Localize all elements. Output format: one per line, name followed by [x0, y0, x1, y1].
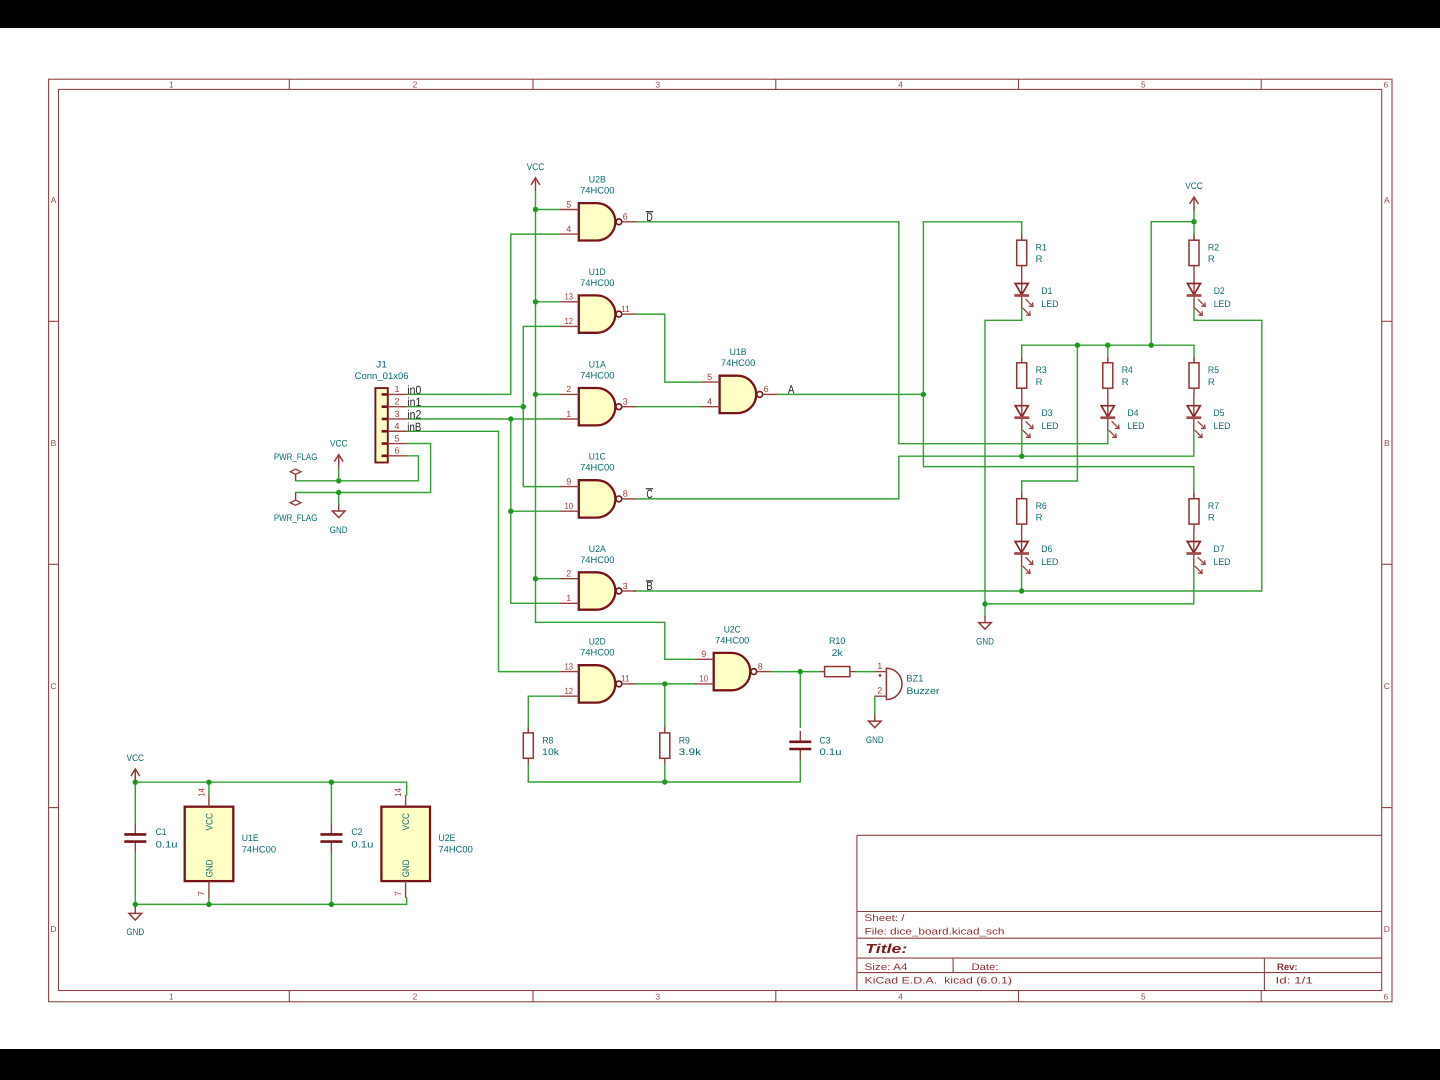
junction GND C2 [329, 902, 334, 907]
svg-text:PWR_FLAG: PWR_FLAG [274, 452, 318, 463]
svg-text:2: 2 [413, 79, 418, 89]
NAND gate U1C body [579, 480, 622, 517]
svg-text:4: 4 [898, 991, 903, 1001]
junction in2 top [508, 416, 513, 421]
svg-text:GND: GND [330, 525, 348, 536]
svg-text:6: 6 [1384, 991, 1389, 1001]
wire VCC rail decoupling [135, 770, 406, 795]
wire in2 branch to U1C pin10 [511, 510, 560, 512]
U2E pin 14 VCC [393, 788, 412, 830]
U2C pin 8 [757, 661, 771, 671]
svg-text:R: R [1036, 254, 1043, 265]
wire R4 stem [1107, 345, 1109, 363]
U1B pin 5 [701, 372, 720, 382]
LED D4 symbol [1100, 393, 1119, 437]
J1 pin 1 [382, 384, 407, 394]
U1C pin 8 [622, 489, 636, 499]
wire C1 bottom [134, 853, 136, 905]
wire R10 to BZ1 pin1 [856, 671, 875, 673]
wire net A to R7 top [923, 467, 1193, 500]
svg-text:4: 4 [394, 421, 399, 431]
J1 pin 2 [382, 396, 407, 406]
wire net /B branch to D6 [1021, 566, 1023, 592]
svg-text:74HC00: 74HC00 [721, 358, 755, 369]
svg-text:R: R [1208, 513, 1215, 524]
svg-text:LED: LED [1214, 299, 1231, 310]
wire GND symbol stem decoupling [134, 904, 136, 907]
junction GND C1 [133, 902, 138, 907]
svg-text:R: R [1036, 513, 1043, 524]
svg-text:PWR_FLAG: PWR_FLAG [274, 513, 318, 524]
svg-text:A: A [788, 383, 794, 397]
NAND gate U1A body [579, 388, 622, 425]
svg-text:74HC00: 74HC00 [242, 844, 276, 855]
junction VCC C1 [133, 780, 138, 785]
power unit U1E body [185, 807, 234, 881]
svg-text:R8: R8 [542, 735, 553, 746]
svg-text:Rev:: Rev: [1277, 962, 1298, 973]
title block outline [857, 835, 1382, 990]
junction VCC R4 [1105, 343, 1110, 348]
svg-text:U2D: U2D [589, 637, 606, 648]
wire in1 J1 pin2 to junction [407, 406, 524, 408]
wire GND stub near J1 [338, 493, 340, 506]
svg-text:R: R [1122, 377, 1129, 388]
svg-text:GND: GND [126, 927, 144, 938]
svg-text:7: 7 [393, 891, 403, 896]
NAND gate U2C body [714, 653, 757, 690]
wire C2 bottom [330, 853, 332, 905]
svg-text:D4: D4 [1128, 408, 1139, 419]
U2A pin 1 [560, 593, 579, 603]
LED D7 symbol [1186, 529, 1205, 573]
svg-text:1: 1 [877, 661, 882, 671]
svg-text:0.1u: 0.1u [156, 840, 178, 851]
wire C1 top [134, 782, 136, 823]
svg-text:R9: R9 [679, 735, 690, 746]
U2A pin 2 [560, 569, 579, 579]
svg-text:U1C: U1C [589, 452, 606, 463]
junction in2 U1C.10 [508, 509, 513, 514]
svg-text:74HC00: 74HC00 [438, 844, 472, 855]
wire bottom feedback rail [528, 760, 800, 782]
U1A pin 3 [622, 397, 636, 407]
svg-text:74HC00: 74HC00 [580, 555, 614, 566]
wire D1 cathode to GND [985, 308, 1022, 617]
wire C3 top to net [799, 672, 801, 728]
wire net /C from U1C out [636, 456, 899, 499]
svg-text:2: 2 [394, 396, 399, 406]
svg-text:11: 11 [621, 674, 630, 684]
J1 pin 5 [382, 433, 407, 443]
U1C pin 9 [560, 476, 579, 486]
wire BZ1 pin2 to GND [874, 696, 876, 714]
power symbol GND (buzzer) [866, 715, 884, 746]
svg-text:Title:: Title: [865, 941, 907, 956]
svg-text:LED: LED [1128, 421, 1145, 432]
svg-text:R2: R2 [1208, 243, 1219, 254]
svg-text:5: 5 [707, 372, 712, 382]
LED D1 symbol [1014, 271, 1033, 315]
net label D [646, 210, 653, 224]
resistor R3 body [1017, 357, 1027, 394]
wire net /C branch to D3 [1021, 430, 1023, 457]
J1 pin 6 [382, 446, 407, 456]
wire GND rail decoupling [135, 898, 406, 904]
svg-text:R: R [1036, 377, 1043, 388]
wire U1E pin14 stem [208, 782, 210, 795]
wire VCC right branch [1151, 222, 1194, 346]
U1B pin 6 [763, 384, 777, 394]
junction VCC vert [1149, 343, 1154, 348]
svg-text:5: 5 [1141, 991, 1146, 1001]
wire D7 cathode to GND [985, 566, 1194, 604]
svg-text:12: 12 [565, 686, 574, 696]
wire U2D pin12 to R8 [528, 696, 560, 732]
svg-text:2: 2 [877, 686, 882, 696]
power symbol VCC (top) [527, 162, 545, 191]
svg-text:KiCad E.D.A. kicad (6.0.1): KiCad E.D.A. kicad (6.0.1) [865, 976, 1013, 987]
U2B pin 6 [622, 212, 636, 222]
resistor R1 body [1017, 234, 1027, 271]
wire VCC stub near J1 [338, 468, 340, 481]
svg-text:1: 1 [169, 991, 174, 1001]
LED D5 symbol [1186, 393, 1205, 437]
junction GND D7 [982, 601, 987, 606]
svg-text:D6: D6 [1041, 544, 1052, 555]
svg-text:1: 1 [394, 384, 399, 394]
svg-text:Sheet: /: Sheet: / [865, 913, 905, 924]
wire in1 vertical U1D pin12 to U1C pin9 [523, 326, 560, 486]
svg-text:3.9k: 3.9k [679, 747, 702, 758]
svg-text:U1B: U1B [730, 347, 747, 358]
junction C3 top [798, 669, 803, 674]
wire net /B to D2 cathode [1194, 308, 1262, 592]
U2C pin 9 [695, 649, 714, 659]
junction in1 [521, 404, 526, 409]
svg-text:8: 8 [623, 489, 628, 499]
svg-text:0.1u: 0.1u [351, 840, 373, 851]
U2E pin 7 GND [393, 859, 412, 898]
svg-text:9: 9 [701, 649, 706, 659]
wire U1D pin13 from VCC rail [536, 301, 561, 303]
junction VCC U1A.2 [533, 392, 538, 397]
U1D pin 11 [621, 304, 636, 314]
svg-text:10k: 10k [542, 747, 559, 758]
wire U2A pin2 from VCC rail [536, 578, 561, 580]
svg-text:4: 4 [566, 224, 571, 234]
svg-text:R: R [1208, 254, 1215, 265]
svg-text:13: 13 [565, 661, 574, 671]
U1E pin 7 GND [196, 859, 215, 898]
resistor R5 body [1189, 357, 1199, 394]
U2A pin 3 [622, 581, 636, 591]
svg-text:R6: R6 [1036, 501, 1047, 512]
resistor R10 body [820, 667, 856, 677]
capacitor C3 symbol [789, 731, 811, 760]
svg-text:VCC: VCC [401, 813, 412, 831]
svg-text:3: 3 [655, 991, 660, 1001]
svg-text:13: 13 [565, 292, 574, 302]
svg-text:3: 3 [394, 409, 399, 419]
U1D pin 13 [560, 292, 579, 302]
svg-text:Buzzer: Buzzer [906, 686, 939, 697]
power symbol VCC (near J1) [330, 439, 348, 468]
svg-text:D7: D7 [1214, 544, 1225, 555]
U1C pin 10 [560, 501, 579, 511]
junction VCC U1D.13 [533, 299, 538, 304]
svg-text:12: 12 [565, 316, 574, 326]
svg-text:4: 4 [707, 397, 712, 407]
wire in0 J1 pin1 to U2B pin4 [407, 234, 561, 394]
svg-text:8: 8 [758, 661, 763, 671]
junction VCC right [1191, 219, 1196, 224]
power symbol VCC (decoupling) [127, 753, 145, 782]
svg-text:C: C [50, 681, 56, 691]
svg-text:U1D: U1D [589, 267, 606, 278]
svg-text:GND: GND [976, 636, 994, 647]
capacitor C1 symbol [124, 824, 146, 853]
U2D pin 11 [621, 674, 636, 684]
junction VCC U2B.5 [533, 207, 538, 212]
svg-text:2k: 2k [832, 648, 843, 659]
svg-text:Size: A4: Size: A4 [865, 962, 908, 973]
svg-text:C3: C3 [820, 735, 831, 746]
svg-text:74HC00: 74HC00 [715, 635, 749, 646]
LED D3 symbol [1014, 393, 1033, 437]
svg-text:C1: C1 [156, 827, 167, 838]
power flag PWR_FLAG bottom [290, 493, 301, 506]
svg-text:6: 6 [764, 384, 769, 394]
resistor R7 body [1189, 493, 1199, 530]
resistor R9 body [660, 727, 670, 764]
svg-text:5: 5 [1141, 79, 1146, 89]
resistor R2 body [1189, 234, 1199, 271]
svg-text:6: 6 [1384, 79, 1389, 89]
svg-text:0.1u: 0.1u [820, 747, 842, 758]
frame row ticks left [49, 320, 59, 322]
border frame inner rectangle [59, 89, 1382, 990]
svg-text:LED: LED [1042, 421, 1059, 432]
wire R9 from junction [664, 684, 666, 732]
junction GND J1 [336, 490, 341, 495]
resistor R4 body [1103, 357, 1113, 394]
wire net /D from U2B out [636, 222, 899, 444]
svg-text:D5: D5 [1214, 408, 1225, 419]
J1 pin 3 [382, 409, 407, 419]
power unit U2E body [381, 807, 430, 881]
svg-text:R5: R5 [1208, 365, 1219, 376]
wire net A to R1 top [923, 222, 1021, 240]
svg-text:GND: GND [866, 735, 884, 746]
svg-text:D: D [50, 924, 56, 934]
svg-text:2: 2 [413, 991, 418, 1001]
power symbol GND (decoupling) [126, 907, 144, 938]
svg-text:inB: inB [407, 420, 421, 434]
svg-text:5: 5 [566, 199, 571, 209]
svg-text:U2B: U2B [589, 175, 606, 186]
svg-text:D2: D2 [1214, 286, 1225, 297]
svg-text:74HC00: 74HC00 [580, 648, 614, 659]
junction U2D out [662, 681, 667, 686]
svg-text:LED: LED [1214, 421, 1231, 432]
junction net /B D6 [1019, 588, 1024, 593]
svg-text:A: A [51, 195, 57, 205]
U2D pin 12 [560, 686, 579, 696]
LED D6 symbol [1014, 529, 1033, 573]
svg-text:2: 2 [566, 569, 571, 579]
svg-text:10: 10 [699, 674, 708, 684]
svg-text:74HC00: 74HC00 [580, 278, 614, 289]
wire J1 pin6 to VCC/PWR_FLAG [296, 456, 419, 481]
frame column ticks bottom [288, 991, 290, 1002]
svg-text:7: 7 [196, 891, 206, 896]
wire U2C out to R10 [772, 671, 820, 673]
svg-text:BZ1: BZ1 [906, 674, 923, 685]
svg-text:1: 1 [566, 409, 571, 419]
svg-text:14: 14 [196, 788, 206, 797]
capacitor C2 symbol [320, 824, 342, 853]
svg-text:VCC: VCC [527, 162, 545, 173]
svg-text:VCC: VCC [127, 753, 145, 764]
buzzer BZ1 body [879, 668, 902, 699]
svg-text:74HC00: 74HC00 [580, 186, 614, 197]
svg-text:LED: LED [1041, 557, 1058, 568]
junction VCC U2A.2 [533, 576, 538, 581]
svg-text:3: 3 [623, 581, 628, 591]
svg-text:VCC: VCC [1185, 181, 1203, 192]
power flag PWR_FLAG top [290, 469, 301, 481]
wire net A from U1B out [777, 393, 924, 395]
svg-text:A: A [1384, 195, 1390, 205]
frame column ticks top [288, 79, 290, 89]
svg-text:D: D [1384, 924, 1390, 934]
svg-text:9: 9 [566, 476, 571, 486]
BZ1 pin 1 [875, 661, 887, 672]
svg-text:U1E: U1E [242, 833, 259, 844]
NAND gate U1D body [579, 295, 622, 332]
frame row ticks right [1382, 320, 1392, 322]
svg-text:3: 3 [623, 397, 628, 407]
junction VCC J1 [336, 478, 341, 483]
svg-text:Date:: Date: [972, 962, 999, 973]
svg-text:C: C [1384, 681, 1390, 691]
power symbol GND (near J1) [330, 505, 348, 536]
svg-text:4: 4 [898, 79, 903, 89]
svg-text:VCC: VCC [204, 813, 215, 831]
svg-text:U1A: U1A [589, 360, 607, 371]
wire U2B pin5 from VCC rail [536, 209, 561, 211]
svg-text:U2A: U2A [589, 544, 607, 555]
svg-text:6: 6 [394, 446, 399, 456]
U1A pin 1 [560, 409, 579, 419]
svg-text:R4: R4 [1122, 365, 1133, 376]
junction VCC R6 [1075, 343, 1080, 348]
wire R3 stem [1021, 345, 1023, 363]
svg-text:1: 1 [566, 593, 571, 603]
wire U1A out to U1B pin4 [636, 406, 701, 408]
NAND gate U2A body [579, 572, 622, 609]
wire in2 vertical to U1C pin10 and U2A pin1 [511, 419, 560, 603]
wire U1E pin7 to rail [208, 898, 210, 904]
U2D pin 13 [560, 661, 579, 671]
U1B pin 4 [701, 397, 720, 407]
svg-text:D1: D1 [1041, 286, 1052, 297]
wire VCC right to R2 [1193, 209, 1195, 240]
wire VCC branch to R6 [1022, 345, 1078, 499]
svg-text:R3: R3 [1036, 365, 1047, 376]
svg-text:6: 6 [623, 212, 628, 222]
U2B pin 5 [560, 199, 579, 209]
svg-text:LED: LED [1214, 557, 1231, 568]
svg-text:3: 3 [655, 79, 660, 89]
svg-text:74HC00: 74HC00 [580, 371, 614, 382]
wire VCC mid rail R3-R5 [1022, 344, 1194, 346]
J1 pin 4 [382, 421, 407, 431]
wire in2 J1 pin3 to U1A pin1 [407, 418, 561, 420]
junction VCC C2 [329, 780, 334, 785]
wire net A vertical [922, 222, 924, 467]
svg-text:GND: GND [204, 859, 215, 877]
U2C pin 10 [695, 674, 714, 684]
svg-text:Id: 1/1: Id: 1/1 [1276, 976, 1313, 987]
junction VCC U1E.14 [206, 780, 211, 785]
wire R5 stem [1193, 345, 1195, 363]
connector J1 body [375, 388, 387, 462]
svg-text:R7: R7 [1208, 501, 1219, 512]
wire net /D to D4 cathode [899, 430, 1108, 444]
wire R9 bottom to rail [664, 764, 666, 782]
svg-text:2: 2 [566, 384, 571, 394]
junction rail R9 [662, 779, 667, 784]
svg-text:5: 5 [394, 433, 399, 443]
svg-text:11: 11 [621, 304, 630, 314]
wire U1A pin2 from VCC rail [536, 393, 561, 395]
wire net /B from U2A out [634, 590, 1262, 592]
svg-text:74HC00: 74HC00 [580, 463, 614, 474]
wire C2 top [330, 782, 332, 823]
svg-text:10: 10 [565, 501, 574, 511]
U1E pin 14 VCC [196, 788, 215, 830]
wire inB J1 pin4 to U2D pin13 [407, 431, 561, 671]
LED D2 symbol [1187, 271, 1206, 315]
svg-text:D3: D3 [1042, 408, 1053, 419]
svg-text:B: B [51, 438, 57, 448]
svg-text:Conn_01x06: Conn_01x06 [355, 371, 409, 382]
junction GND U1E.7 [206, 902, 211, 907]
resistor R8 body [523, 727, 533, 764]
wire VCC rail down left side of gates [536, 191, 696, 659]
svg-text:R1: R1 [1036, 243, 1047, 254]
svg-text:B: B [1384, 438, 1390, 448]
svg-text:1: 1 [169, 79, 174, 89]
power symbol VCC (right) [1185, 181, 1203, 210]
power symbol GND (right) [976, 616, 994, 647]
svg-text:R: R [1208, 377, 1215, 388]
svg-text:File: dice_board.kicad_sch: File: dice_board.kicad_sch [865, 926, 1005, 937]
wire U2D out to U2C pin10 [636, 683, 696, 685]
svg-text:J1: J1 [376, 360, 387, 371]
wire net /C to D3 D5 cathodes [899, 430, 1194, 457]
BZ1 pin 2 [875, 686, 887, 697]
svg-text:R10: R10 [829, 636, 846, 647]
svg-text:GND: GND [401, 859, 412, 877]
U1D pin 12 [560, 316, 579, 326]
net label B [646, 579, 653, 593]
wire U1D out to U1B pin5 [636, 314, 701, 382]
svg-text:U2C: U2C [724, 624, 741, 635]
svg-text:U2E: U2E [438, 833, 455, 844]
